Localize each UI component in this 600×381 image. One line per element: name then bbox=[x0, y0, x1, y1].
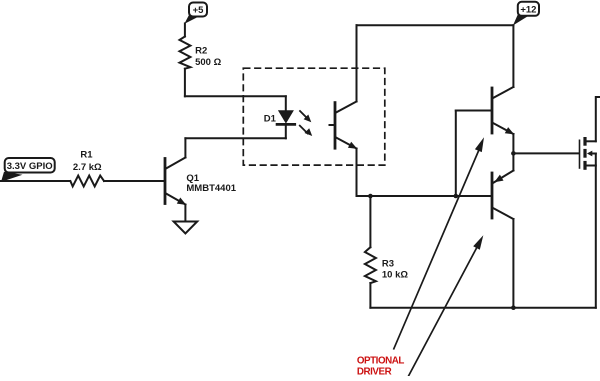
svg-text:10 kΩ: 10 kΩ bbox=[382, 270, 408, 281]
svg-text:3.3V GPIO: 3.3V GPIO bbox=[7, 161, 53, 172]
svg-text:+12: +12 bbox=[520, 5, 536, 16]
svg-text:+5: +5 bbox=[193, 5, 205, 16]
svg-text:R1: R1 bbox=[80, 150, 93, 161]
svg-text:500 Ω: 500 Ω bbox=[195, 57, 221, 68]
svg-text:MMBT4401: MMBT4401 bbox=[186, 183, 236, 194]
svg-text:OPTIONAL: OPTIONAL bbox=[357, 355, 404, 366]
svg-text:D1: D1 bbox=[264, 114, 277, 125]
svg-text:DRIVER: DRIVER bbox=[357, 366, 392, 376]
svg-text:R2: R2 bbox=[195, 46, 207, 57]
svg-text:2.7 kΩ: 2.7 kΩ bbox=[73, 162, 102, 173]
svg-text:R3: R3 bbox=[382, 259, 394, 270]
